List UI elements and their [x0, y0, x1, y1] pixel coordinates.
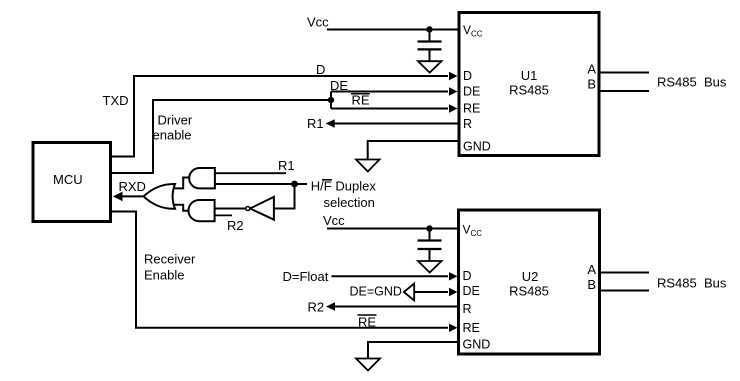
wire R2 from U2 R pin — [326, 302, 459, 311]
svg-text:Vcc: Vcc — [323, 213, 345, 228]
and-gate G3 (bottom, points left) — [189, 200, 215, 221]
svg-text:B: B — [587, 77, 596, 92]
svg-text:RS485 Bus: RS485 Bus — [657, 75, 727, 90]
svg-text:B: B — [587, 277, 596, 292]
wire R1 from U1 R pin — [326, 119, 459, 128]
label RE (overline) — [351, 93, 370, 108]
wire G3 output to OR input — [175, 205, 190, 211]
wire receiver enable: MCU to U2 RE pin — [111, 212, 458, 333]
open arrow symbol (DE tied) — [404, 284, 414, 301]
svg-text:DE: DE — [463, 284, 480, 298]
svg-text:RE: RE — [352, 93, 370, 108]
svg-text:DE=GND: DE=GND — [350, 285, 402, 299]
svg-text:RS485: RS485 — [509, 83, 549, 98]
svg-text:GND: GND — [463, 140, 491, 154]
svg-text:Driver: Driver — [158, 113, 193, 128]
svg-text:R: R — [463, 117, 472, 131]
or-gate G1 (points left, output to RXD) — [144, 184, 176, 209]
svg-text:D: D — [463, 69, 472, 83]
svg-text:U2: U2 — [522, 269, 539, 284]
wire G2 input R1 — [215, 172, 286, 174]
junction dot driver enable — [328, 97, 334, 103]
label RE (overline, U2) — [358, 315, 377, 330]
svg-text:RS485 Bus: RS485 Bus — [657, 276, 727, 291]
svg-text:TXD: TXD — [103, 93, 129, 108]
svg-text:RS485: RS485 — [509, 284, 549, 299]
label Driver enable — [153, 113, 193, 143]
wire D=Float to U2 D pin — [332, 272, 458, 280]
svg-text:Enable: Enable — [144, 268, 184, 283]
wire A (U2) — [600, 272, 650, 274]
svg-text:R: R — [463, 302, 472, 316]
svg-text:D=Float: D=Float — [283, 269, 329, 284]
wire driver enable: MCU to DE/RE of U1 — [111, 87, 458, 173]
wire RXD: OR output into MCU — [113, 192, 145, 202]
svg-text:R2: R2 — [308, 300, 325, 315]
wire B (U2) — [600, 290, 650, 292]
wire TXD/D: MCU to U1 D pin — [111, 72, 458, 157]
ground symbol below C2 — [418, 261, 442, 273]
capacitor C1 — [418, 30, 442, 62]
IC U1 RS485 — [459, 13, 599, 156]
ground symbol U2 — [356, 359, 380, 371]
svg-text:R2: R2 — [227, 218, 244, 233]
wire H/F stub right — [295, 183, 308, 185]
svg-text:GND: GND — [463, 338, 491, 352]
svg-text:RE: RE — [463, 321, 480, 335]
svg-text:MCU: MCU — [53, 172, 83, 187]
svg-text:R1: R1 — [307, 116, 324, 131]
junction dot Vcc/C1 — [426, 26, 432, 32]
junction dot H/F selection — [291, 181, 298, 188]
capacitor C2 — [418, 229, 442, 262]
wire A (U1) — [599, 72, 649, 74]
IC U2 RS485 — [459, 210, 600, 354]
junction dot Vcc/C2 — [426, 225, 432, 231]
wire DE=GND to U2 DE pin — [414, 288, 457, 296]
label H/F Duplex selection — [311, 179, 377, 211]
wire G3 input from inverter bubble — [215, 208, 246, 210]
wire U2 GND to ground — [368, 342, 459, 358]
ground symbol below C1 — [418, 61, 442, 72]
svg-text:D: D — [463, 269, 472, 283]
wire G2 input from H/F node — [215, 183, 295, 185]
svg-text:R1: R1 — [278, 158, 295, 173]
svg-text:A: A — [587, 262, 596, 277]
wire G3 input R2 stub — [215, 214, 232, 216]
svg-text:Receiver: Receiver — [144, 252, 196, 267]
svg-text:Vcc: Vcc — [307, 15, 329, 30]
wire B (U1) — [599, 90, 649, 92]
wire U1 GND to ground — [368, 141, 459, 159]
wire Vcc to U1 — [327, 29, 459, 31]
svg-text:U1: U1 — [521, 68, 538, 83]
ground symbol U1 — [356, 160, 380, 172]
svg-text:D: D — [316, 62, 325, 77]
wire G2 output to OR input — [175, 178, 190, 189]
wire Vcc to U2 — [327, 228, 459, 230]
svg-text:DE: DE — [463, 85, 480, 99]
MCU block — [33, 143, 111, 222]
and-gate G2 (top, points left) — [189, 168, 215, 188]
svg-text:selection: selection — [324, 195, 375, 210]
label Receiver Enable — [144, 252, 196, 283]
svg-text:RXD: RXD — [119, 179, 146, 194]
svg-text:A: A — [587, 62, 596, 77]
svg-text:enable: enable — [153, 128, 192, 143]
inverter G4 (points left) — [246, 197, 274, 220]
svg-text:RE: RE — [463, 102, 480, 116]
svg-text:H/F Duplex: H/F Duplex — [311, 179, 377, 194]
wire H/F node down to inverter input — [275, 184, 295, 209]
